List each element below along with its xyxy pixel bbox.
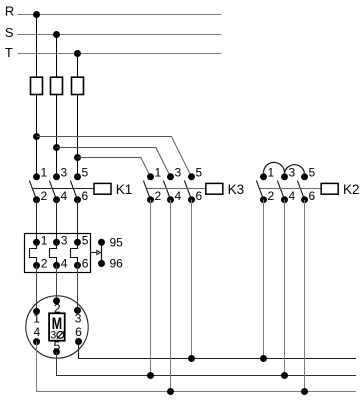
K2 mechanical linkage <box>260 188 321 190</box>
wire phase T bus <box>18 53 222 55</box>
node junction R branch <box>33 133 40 140</box>
motor terminal 2 <box>53 297 60 304</box>
svg-text:5: 5 <box>309 165 316 179</box>
motor terminal 3 <box>74 307 81 314</box>
contactor K3 pole 3-4 <box>163 173 174 203</box>
coil K3 <box>206 183 223 194</box>
svg-text:2: 2 <box>41 257 48 271</box>
svg-text:6: 6 <box>75 325 82 339</box>
contactor K2 pole 5-6 <box>297 173 308 203</box>
wire fuse F1 to K1 pin1 <box>36 95 38 177</box>
wire K3 pin4 drop <box>170 200 172 392</box>
wire K3 pin2 drop <box>150 200 152 376</box>
coil K1 <box>94 183 111 194</box>
motor label phase slash <box>57 331 64 339</box>
wire K2 pin2 drop <box>263 200 265 359</box>
wire motor 5 to bus V1 <box>57 352 357 376</box>
svg-text:96: 96 <box>110 257 124 271</box>
wire motor 6 to bus U1 <box>79 342 357 359</box>
wire K1 pin4 to overload pin3 <box>56 200 58 243</box>
wire overload pin2 to motor U1 <box>36 265 38 311</box>
overload heater 1-2 <box>30 239 41 269</box>
svg-text:R: R <box>5 4 14 19</box>
contactor K2 pole 1-2 <box>256 173 267 203</box>
svg-text:1: 1 <box>268 165 275 179</box>
svg-text:4: 4 <box>33 325 40 339</box>
overload NC contact 95-96 <box>98 239 105 267</box>
svg-text:2: 2 <box>41 189 48 203</box>
svg-text:S: S <box>5 25 14 40</box>
node junction T branch <box>74 154 81 161</box>
fuse F3 <box>72 77 84 94</box>
node K3-6 on bus U1 <box>188 355 195 362</box>
wire phase S bus <box>17 34 221 36</box>
svg-text:T: T <box>5 45 13 60</box>
wire K2 star bridge arc 3-5 <box>285 165 305 173</box>
fuse F2 <box>51 77 63 94</box>
contactor K1 pole 3-4 <box>49 173 60 203</box>
svg-text:4: 4 <box>175 189 182 203</box>
wire fuse F2 to K1 pin3 <box>56 95 58 177</box>
wire overload pin6 to motor U3 <box>77 265 79 310</box>
svg-text:3: 3 <box>289 165 296 179</box>
motor terminal 4 <box>33 338 40 345</box>
node T tap junction <box>74 50 81 57</box>
wire K2 pin6 drop <box>304 200 306 392</box>
node R tap junction <box>33 11 40 18</box>
motor label phase circle <box>57 332 64 339</box>
svg-text:6: 6 <box>196 189 203 203</box>
wire R branch to K3 pin5 <box>37 137 192 177</box>
svg-text:4: 4 <box>289 189 296 203</box>
svg-text:2: 2 <box>268 189 275 203</box>
svg-text:1: 1 <box>41 234 48 248</box>
svg-text:6: 6 <box>82 189 89 203</box>
node K2-4 on bus V1 <box>281 372 288 379</box>
contactor K1 pole 1-2 <box>29 173 40 203</box>
motor nameplate box <box>49 313 65 340</box>
coil K2 <box>321 183 338 194</box>
wire R drop to fuse <box>36 15 38 78</box>
wire K2 star bridge arc 1-3 <box>264 162 285 172</box>
svg-text:K1: K1 <box>116 182 133 197</box>
wire S branch to K3 pin3 <box>57 148 171 177</box>
svg-text:5: 5 <box>82 234 89 248</box>
svg-text:1: 1 <box>155 165 162 179</box>
svg-text:3: 3 <box>61 165 68 179</box>
svg-text:1: 1 <box>33 312 40 326</box>
K3 mechanical linkage <box>147 188 206 190</box>
wire K1 pin2 to overload pin1 <box>36 200 38 243</box>
K1 mechanical linkage <box>33 188 94 190</box>
svg-text:3: 3 <box>50 330 56 342</box>
svg-text:1: 1 <box>41 165 48 179</box>
fuse F1 <box>31 77 43 94</box>
overload trip arrowhead <box>97 250 100 254</box>
wire T branch to K3 pin1 <box>78 158 151 177</box>
motor terminal 5 <box>53 348 60 355</box>
svg-text:3: 3 <box>75 312 82 326</box>
overload heater 3-4 <box>50 239 61 269</box>
node K2-2 on bus U1 <box>260 355 267 362</box>
wire K2 pin4 drop <box>284 200 286 376</box>
wire overload pin4 to motor U2 <box>56 265 58 301</box>
svg-text:95: 95 <box>110 235 124 249</box>
svg-text:4: 4 <box>61 189 68 203</box>
node junction S branch <box>53 144 60 151</box>
svg-text:6: 6 <box>82 257 89 271</box>
motor terminal 1 <box>33 308 40 315</box>
node K2-6 on bus W1 <box>301 388 308 395</box>
contactor K2 pole 3-4 <box>277 173 288 203</box>
svg-text:3: 3 <box>61 234 68 248</box>
node S tap junction <box>53 31 60 38</box>
wire S drop to fuse <box>56 35 58 78</box>
svg-text:4: 4 <box>61 257 68 271</box>
overload trip linkage <box>91 252 97 254</box>
contactor K3 pole 5-6 <box>184 173 195 203</box>
contactor K1 pole 5-6 <box>70 173 81 203</box>
overload heater 5-6 <box>71 239 82 269</box>
contactor K3 pole 1-2 <box>143 173 154 203</box>
wire K3 pin6 drop <box>191 200 193 359</box>
motor terminal 6 <box>75 338 82 345</box>
wire motor 4 to bus W1 <box>37 342 357 392</box>
node K3-4 on bus W1 <box>167 388 174 395</box>
svg-text:K3: K3 <box>228 182 245 197</box>
svg-text:3: 3 <box>175 165 182 179</box>
wire T drop to fuse <box>77 54 79 78</box>
motor M1 body <box>26 296 88 358</box>
wire fuse F3 to K1 pin5 <box>77 95 79 177</box>
wire K1 pin6 to overload pin5 <box>77 200 79 243</box>
node K3-2 on bus V1 <box>147 372 154 379</box>
svg-text:5: 5 <box>196 165 203 179</box>
svg-text:2: 2 <box>155 189 162 203</box>
wire phase R bus <box>17 14 221 16</box>
overload relay F4 box <box>25 234 91 273</box>
svg-text:6: 6 <box>309 189 316 203</box>
svg-text:5: 5 <box>82 165 89 179</box>
svg-text:K2: K2 <box>343 182 360 197</box>
